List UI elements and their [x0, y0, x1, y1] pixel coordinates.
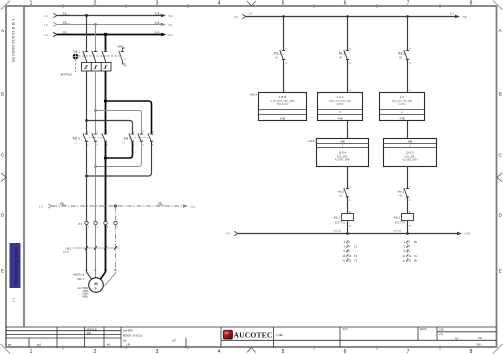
cable W1 line [73, 247, 120, 249]
coil KS.1 labels [333, 216, 352, 228]
breaker aux contact [119, 48, 126, 64]
svg-text:-Ka.2: -Ka.2 [337, 190, 344, 194]
svg-text:0.9: 0.9 [234, 15, 238, 19]
svg-text:-Ka.1: -Ka.1 [397, 190, 404, 194]
junction coil2 bus [406, 232, 409, 235]
svg-text:Engineering Base: Engineering Base [14, 247, 19, 286]
coil KS.1 [342, 214, 354, 221]
svg-text:7A: 7A [414, 255, 417, 258]
junction KS2 pole2 join [94, 165, 97, 168]
cable conductor marks [85, 246, 117, 250]
wire drop3 lower [407, 60, 409, 93]
control bus L+ [242, 14, 460, 18]
node L3 labels [44, 30, 173, 37]
svg-text:7: 7 [407, 0, 410, 6]
svg-text:417KV: 417KV [336, 102, 344, 106]
svg-text:1: 1 [30, 349, 33, 354]
contact KB.1 [344, 50, 349, 60]
svg-text:5: 5 [282, 0, 285, 6]
corner trim bottom-right [493, 344, 503, 354]
svg-text:4B: 4B [399, 194, 402, 197]
column ticks bottom border [63, 346, 440, 350]
svg-text:L3F: L3F [172, 341, 177, 343]
contact KS.2 auxiliary [404, 50, 409, 60]
contactor KS2 pole 1 [129, 133, 134, 142]
junction KS2 pole3 join [85, 175, 88, 178]
svg-text:-M3TR1A: -M3TR1A [60, 73, 72, 77]
svg-text:8: 8 [470, 0, 473, 6]
device box 1 C.1 [318, 93, 363, 121]
wire drop2 lower [347, 60, 349, 93]
wire interlock1 to coil1 [347, 198, 349, 214]
breaker pole 2 [92, 51, 97, 63]
svg-text:BDBOK: Ob 6 C21: BDBOK: Ob 6 C21 [123, 336, 143, 338]
breaker pole 3 [102, 51, 107, 63]
wire KS2 pole1 out loop to phase3 [106, 142, 133, 158]
svg-text:5: 5 [282, 349, 285, 354]
svg-text:T2a: T2a [168, 14, 173, 18]
motor location label [73, 273, 85, 281]
svg-text:-KS.2: -KS.2 [393, 216, 401, 220]
wire box3 to boxB [407, 121, 409, 139]
svg-text:B: B [499, 91, 502, 96]
svg-text:4.4B: 4.4B [399, 116, 405, 120]
svg-text:6: 6 [344, 0, 347, 6]
wire X1 to motor V [95, 225, 97, 278]
wire coil2 to bus [407, 221, 409, 234]
contactor KS2 pole 2 [138, 133, 143, 142]
svg-text:-KS.1: -KS.1 [333, 216, 341, 220]
contact KS.1 auxiliary [280, 50, 285, 60]
junction phase1 loop [85, 119, 88, 122]
svg-text:2: 2 [94, 0, 97, 6]
row labels right [499, 28, 503, 273]
wire interlock2 to coil2 [407, 198, 409, 214]
svg-text:2.1: 2.1 [450, 12, 454, 16]
svg-text:1/99: 1/99 [439, 330, 444, 332]
svg-text:6: 6 [344, 349, 347, 354]
svg-text:gpr: gpr [8, 343, 12, 346]
contactor KS 2 label [122, 136, 131, 144]
svg-text:1.0: 1.0 [44, 23, 48, 27]
contactor KS2 pole 3 [148, 133, 153, 142]
motor data block [78, 287, 89, 298]
interlock contact Ka.2 [344, 188, 349, 198]
svg-text:7: 7 [407, 349, 410, 354]
svg-text:+3P: +3P [126, 344, 131, 346]
svg-text:M2.1A4: M2.1A4 [394, 229, 402, 232]
left margin inner line [23, 6, 25, 327]
svg-text:-A4.B: -A4.B [308, 139, 315, 143]
wire motor V vertical [95, 142, 97, 221]
wire motor U vertical [86, 142, 88, 221]
device box 1.2 [380, 93, 425, 121]
KS2 mechanical link [135, 137, 150, 139]
svg-text:P1R1: P1R1 [117, 44, 124, 48]
contactor KS 1 label [73, 136, 80, 144]
svg-text:4: 4 [218, 349, 221, 354]
fold mark top center [247, 1, 256, 6]
wire drop1 upper [283, 17, 285, 51]
contact mirror table KS.1 [342, 241, 358, 263]
svg-text:E-PI: E-PI [343, 329, 348, 331]
breaker mechanical link dashes [76, 56, 122, 73]
contact KS.1 labels [274, 48, 288, 64]
cable W1 label [63, 246, 71, 254]
bus L+ labels [234, 12, 468, 19]
terminal X1:2 [94, 221, 97, 224]
svg-text:EKZT7R2: EKZT7R2 [335, 223, 346, 225]
contactor KS1 pole 1 [83, 133, 88, 142]
svg-text:2.0B: 2.0B [465, 232, 471, 236]
svg-text:1 C.1: 1 C.1 [336, 95, 344, 99]
svg-text:1 B.R: 1 B.R [279, 95, 287, 99]
svg-text:A1:DBT_BRV: A1:DBT_BRV [335, 158, 351, 162]
junction L2 drop [94, 23, 97, 26]
junction coil1 bus [346, 232, 349, 235]
svg-text:1.2: 1.2 [400, 95, 405, 99]
svg-text:4.4B: 4.4B [337, 116, 343, 120]
interlock contact Ka.1 [404, 188, 409, 198]
interlock2 labels [397, 186, 412, 202]
wire phase1 breaker to KS1 [86, 71, 88, 134]
Engineering Base badge [10, 243, 21, 288]
svg-text:8: 8 [470, 349, 473, 354]
wire loop phase1 to KS2 pole1 [87, 121, 133, 134]
svg-text:43.1: 43.1 [339, 52, 345, 56]
wire boxB to interlock2 [407, 167, 409, 189]
device box A4.B left [317, 139, 369, 167]
bus L1 wire [53, 13, 166, 17]
wire motor W vertical [105, 142, 107, 221]
corner trim bottom-left [1, 344, 11, 354]
svg-text:A4B: A4B [408, 140, 413, 143]
svg-text:2.1a: 2.1a [190, 205, 196, 209]
wire drop2 upper [347, 17, 349, 51]
junction control drop 3 [406, 15, 409, 18]
node L1 labels [44, 11, 173, 18]
svg-text:EN-1: EN-1 [477, 345, 483, 347]
svg-text:EGPS: EGPS [420, 329, 427, 331]
svg-text:05/8-52-B: 05/8-52-B [87, 330, 98, 332]
svg-text:8D: 8D [414, 260, 417, 262]
PE bus dash-dot [48, 204, 188, 208]
wire loop phase3 to KS2 pole3 [106, 101, 152, 134]
contact KB.1 labels [339, 48, 352, 64]
wire slant into motor PE [105, 273, 116, 286]
svg-text:2B: 2B [414, 242, 417, 244]
column labels top [30, 0, 473, 6]
bus L- labels [226, 229, 470, 235]
svg-text:1.0: 1.0 [39, 204, 43, 208]
device box 1 B.R [259, 93, 307, 121]
svg-text:6.4B: 6.4B [280, 116, 286, 120]
row labels left [1, 28, 5, 273]
svg-text:T2a: T2a [168, 23, 173, 27]
svg-text:-W1: -W1 [66, 246, 72, 250]
svg-text:T2a: T2a [168, 33, 173, 37]
wire L3 drop to breaker [105, 35, 107, 51]
device box A4.B right [384, 139, 437, 167]
wire slant into motor U [87, 272, 92, 279]
svg-text:KS 1: KS 1 [73, 136, 80, 140]
svg-text:1: 1 [30, 0, 33, 6]
corner trim top-right [493, 1, 503, 11]
wire box2 to boxA [347, 121, 349, 139]
svg-text:+MOT1 a: +MOT1 a [73, 273, 85, 277]
svg-text:Q 6.4: Q 6.4 [339, 151, 347, 155]
fold mark bottom center [247, 348, 256, 353]
wire drop3 upper [407, 17, 409, 51]
junction L3 drop [104, 33, 107, 36]
svg-text:3A: 3A [275, 57, 278, 60]
breaker rotary actuator [72, 53, 79, 60]
terminal pin labels [88, 227, 119, 229]
junction PE drop [114, 204, 117, 207]
terminal X1:1 [85, 221, 88, 224]
svg-text:400V: 400V [82, 295, 88, 298]
control bus L- [234, 231, 462, 235]
breaker pole 1 [83, 51, 88, 63]
motor M1 [89, 278, 104, 293]
wire PE drop [115, 206, 117, 273]
motor pin labels [85, 270, 117, 272]
KS1 pin labels [87, 132, 108, 147]
svg-text:-X1: -X1 [77, 222, 82, 226]
svg-text:EB DEMO 05/8-52-B Bl.1: EB DEMO 05/8-52-B Bl.1 [12, 18, 16, 62]
junction L1 drop [85, 14, 88, 17]
wire coil1 to bus [347, 221, 349, 234]
svg-text:KS.1: KS.1 [274, 52, 281, 56]
wire KS2 pole3 out loop to phase1 [87, 142, 152, 176]
terminal X1:3 [104, 221, 107, 224]
title block grid [6, 327, 497, 348]
junction control drop 1 [282, 15, 285, 18]
corner trim top-left [1, 1, 11, 11]
thermal overload block [82, 63, 112, 72]
contact KS.2 labels [398, 48, 412, 64]
junction phase3 loop [104, 99, 107, 102]
svg-text:Deu=BP7: Deu=BP7 [123, 330, 134, 332]
wire L1 drop to breaker [86, 16, 88, 51]
svg-text:4.9: 4.9 [226, 232, 230, 236]
wire X1 to motor U [86, 225, 88, 272]
KS1 mechanical link [89, 137, 104, 139]
svg-text:+KG.4: +KG.4 [249, 92, 257, 96]
coil KS.2 labels [393, 216, 412, 228]
fold mark left center [1, 173, 6, 182]
wire phase3 breaker to KS1 [105, 71, 107, 134]
PE labels [39, 202, 196, 209]
svg-text:M2.1A4: M2.1A4 [334, 229, 342, 232]
svg-text:1:1: 1:1 [12, 297, 16, 302]
wire slant into motor W [100, 272, 105, 279]
svg-text:T2b: T2b [463, 15, 468, 19]
column ticks top border [63, 4, 440, 8]
svg-text:3: 3 [156, 0, 159, 6]
wire boxA to interlock1 [347, 167, 349, 189]
svg-text:1.0: 1.0 [44, 14, 48, 18]
svg-text:a%: a% [107, 344, 110, 346]
column labels bottom [30, 349, 473, 354]
coil KS.2 [402, 214, 414, 221]
bus L2 wire [53, 22, 166, 26]
svg-text:3~: 3~ [94, 286, 98, 290]
terminal X1:PE [114, 221, 117, 224]
fold mark right center [497, 173, 502, 182]
svg-text:AUCOTEC: AUCOTEC [234, 331, 273, 340]
svg-text:A4B: A4B [340, 140, 345, 143]
wire phase2 breaker to KS1 [95, 71, 97, 134]
svg-text:Q 6.2: Q 6.2 [406, 151, 414, 155]
junction control drop 2 [346, 15, 349, 18]
svg-text:4: 4 [218, 0, 221, 6]
svg-text:4B: 4B [339, 57, 342, 60]
svg-text:1.0: 1.0 [44, 33, 48, 37]
wire drop1 lower [283, 60, 285, 93]
junction phase2 loop [94, 109, 97, 112]
svg-text:MO 1: MO 1 [77, 277, 84, 281]
node L2 labels [44, 20, 173, 27]
wire X1 to motor W [105, 225, 107, 272]
junction KS2 pole1 join [104, 156, 107, 159]
wire L2 drop to breaker [95, 25, 97, 51]
wire KS2 pole2 out loop to phase2 [96, 142, 142, 167]
svg-text:ALB: ALB [87, 332, 92, 335]
svg-text:3: 3 [156, 349, 159, 354]
AUCOTEC logo [223, 330, 272, 339]
wire loop phase2 to KS2 pole2 [96, 111, 142, 134]
contact mirror table KS.2 [402, 241, 417, 263]
contactor KS1 pole 3 [102, 133, 107, 142]
svg-text:2: 2 [94, 349, 97, 354]
svg-text:CB.1: CB.1 [73, 50, 80, 54]
KS2 pin labels [133, 132, 154, 147]
contactor KS1 pole 2 [92, 133, 97, 142]
svg-text:2M: 2M [124, 65, 127, 67]
svg-text:t.=1Ba: t.=1Ba [276, 334, 283, 337]
svg-text:A1:DBZ_BRV: A1:DBZ_BRV [402, 158, 418, 162]
interlock1 labels [337, 186, 352, 202]
bus L3 wire [53, 32, 166, 36]
svg-text:E: E [499, 269, 502, 274]
title block texts [8, 329, 483, 346]
svg-text:1+: 1+ [249, 12, 253, 16]
svg-text:4x1,5: 4x1,5 [63, 251, 70, 254]
svg-text:KS.2: KS.2 [398, 52, 405, 56]
svg-text:/4.1KJ: /4.1KJ [398, 102, 406, 106]
svg-text:TR14L617: TR14L617 [277, 102, 289, 106]
svg-text:B: B [1, 91, 4, 96]
svg-text:E: E [1, 269, 4, 274]
svg-text:6B: 6B [399, 57, 402, 60]
svg-text:EKZT7R4: EKZT7R4 [395, 223, 406, 225]
breaker aux labels [117, 44, 127, 67]
